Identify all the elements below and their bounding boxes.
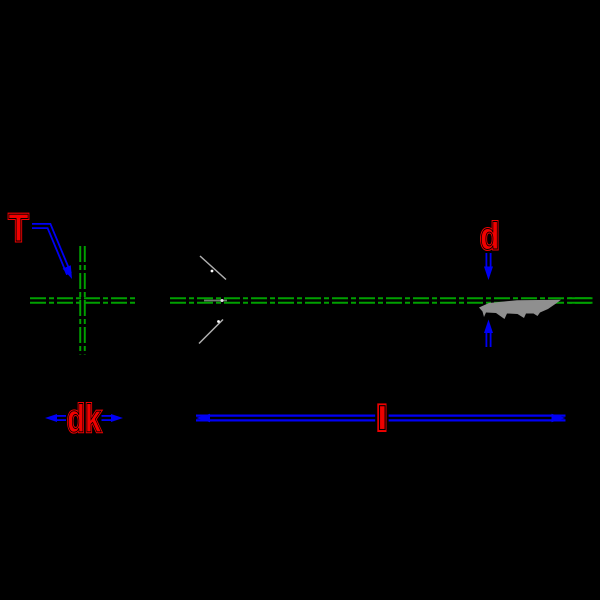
centerline horizontal left segment — [30, 297, 138, 304]
screw head cone highlight upper edge — [200, 256, 226, 280]
screw head cone highlight lower edge — [199, 320, 223, 344]
dimension arrow d lower — [484, 320, 493, 348]
label T — [9, 207, 29, 250]
highlight dot lower — [217, 320, 220, 323]
shank centerline highlight streak — [204, 300, 227, 302]
svg-text:T: T — [9, 207, 29, 250]
centerline vertical — [79, 246, 86, 355]
leader arrow for T — [32, 226, 72, 279]
label dk — [67, 398, 102, 441]
highlight dot upper — [211, 270, 214, 273]
svg-text:d: d — [480, 215, 499, 257]
centerline end solid segment — [569, 297, 593, 304]
label l — [375, 402, 388, 433]
dimension arrow dk right — [102, 414, 124, 422]
label d — [480, 215, 499, 257]
dimension line l — [196, 414, 566, 422]
highlight dot on centerline — [221, 299, 224, 302]
centerline horizontal right segment — [170, 297, 592, 304]
screw threaded tip — [479, 300, 561, 319]
svg-text:dk: dk — [67, 398, 102, 441]
dimension arrow dk left — [45, 414, 66, 422]
dimension arrow d upper — [484, 253, 493, 280]
